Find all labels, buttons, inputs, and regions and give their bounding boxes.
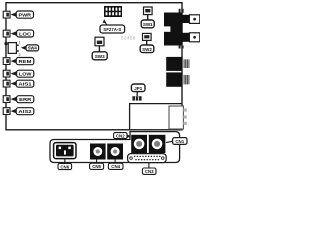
label ERR: [17, 96, 34, 103]
svg-text:ERR: ERR: [19, 97, 32, 102]
svg-text:SF27A-S: SF27A-S: [103, 27, 121, 32]
wire arrow from label to DIP switch: [103, 19, 107, 23]
wire arrow to AIS1 label: [11, 81, 17, 86]
svg-text:LOC: LOC: [19, 31, 32, 36]
label PWR: [16, 11, 33, 18]
wire stem SW1: [147, 15, 149, 20]
LED D1: [3, 11, 10, 18]
switch SW4 body: [8, 40, 20, 56]
label REM: [16, 58, 34, 65]
svg-text:JP1: JP1: [134, 86, 143, 91]
label CN6: [58, 163, 72, 169]
label SW1: [141, 20, 154, 28]
DIN connector CN5: [90, 144, 106, 160]
svg-text:53458: 53458: [121, 36, 136, 41]
wire arrow to REM label: [11, 59, 17, 64]
wire arrow to SW4 label: [21, 46, 26, 50]
label CN1: [173, 138, 187, 145]
LED D3: [3, 58, 10, 65]
wire stem SW3: [98, 46, 100, 52]
label CN4: [108, 163, 123, 169]
wire arrow to LOW label: [11, 71, 17, 76]
svg-text:CN2: CN2: [116, 133, 125, 138]
wire arrow to PWR label: [11, 12, 17, 17]
AC power inlet CN6: [54, 143, 76, 159]
plug P2 (to phone): [189, 33, 199, 42]
svg-text:CN3: CN3: [145, 169, 154, 174]
connector J1/J2 black body (line jacks): [163, 9, 189, 49]
LED D6: [3, 96, 10, 103]
label CN2: [114, 133, 127, 139]
inner partition wall (bottom-right bay): [130, 104, 182, 130]
DIP switch S1: [104, 6, 122, 17]
connector J4 (right, with plug): [166, 72, 190, 86]
D-sub connector CN3: [128, 154, 167, 163]
LED D4: [3, 70, 10, 77]
connector J3 (right, with plug): [166, 57, 190, 71]
svg-text:2: 2: [19, 53, 21, 57]
svg-text:PWR: PWR: [18, 13, 31, 18]
switch SW2 icon: [143, 33, 152, 40]
wire stem JP1: [136, 92, 138, 96]
svg-text:LOW: LOW: [19, 72, 32, 77]
DIN connector CN2 (large): [131, 135, 147, 153]
svg-text:CN6: CN6: [60, 164, 69, 169]
label JP1: [131, 84, 145, 92]
svg-text:SW1: SW1: [143, 22, 153, 27]
label SW2: [140, 45, 154, 53]
svg-text:SW4: SW4: [28, 46, 38, 51]
svg-text:CN1: CN1: [175, 139, 184, 144]
label SW4: [26, 45, 39, 51]
label SF27A-S: [100, 25, 125, 33]
LED D2: [3, 30, 10, 37]
svg-text:CN4: CN4: [111, 164, 120, 169]
jumper JP1 block: [132, 96, 141, 100]
wire stem CN5: [96, 160, 98, 164]
label LOC: [17, 30, 34, 37]
svg-text:REM: REM: [19, 59, 32, 64]
wire stem CN6: [64, 159, 66, 164]
enclosure U1 (top view): [6, 3, 182, 130]
wire arrow to LOC label: [11, 31, 17, 36]
svg-text:SW3: SW3: [95, 54, 105, 59]
label LOW: [17, 70, 34, 77]
plug P1 (to line): [189, 15, 199, 24]
connector CN7 (card-edge in bay): [169, 106, 187, 129]
node junction on left edge: [4, 42, 7, 45]
DIN connector CN4: [107, 144, 123, 160]
label SW3: [92, 52, 107, 60]
switch SW3 icon: [95, 37, 104, 46]
wire stem SW2: [146, 40, 148, 45]
DIN connector CN1 (large): [149, 135, 166, 153]
wire stem CN3: [148, 163, 150, 168]
wire stem CN4: [114, 160, 116, 164]
wire arrow CN2: [127, 134, 130, 138]
label AIS1: [16, 80, 34, 87]
switch SW1 icon: [144, 7, 153, 15]
svg-text:1: 1: [19, 40, 21, 44]
label CN3: [142, 168, 156, 174]
svg-text:CN5: CN5: [92, 164, 101, 169]
LED D5: [3, 80, 10, 87]
LED D7: [3, 108, 10, 115]
svg-text:AIS2: AIS2: [18, 109, 32, 114]
label CN5: [90, 163, 104, 169]
svg-text:SW2: SW2: [142, 47, 152, 52]
label AIS2: [16, 108, 34, 115]
svg-text:AIS1: AIS1: [18, 82, 32, 87]
wire arrow to AIS2 label: [11, 109, 17, 114]
wire arrow to ERR label: [11, 97, 17, 102]
wire tail CN1: [166, 141, 173, 142]
rear panel outline: [50, 132, 180, 163]
